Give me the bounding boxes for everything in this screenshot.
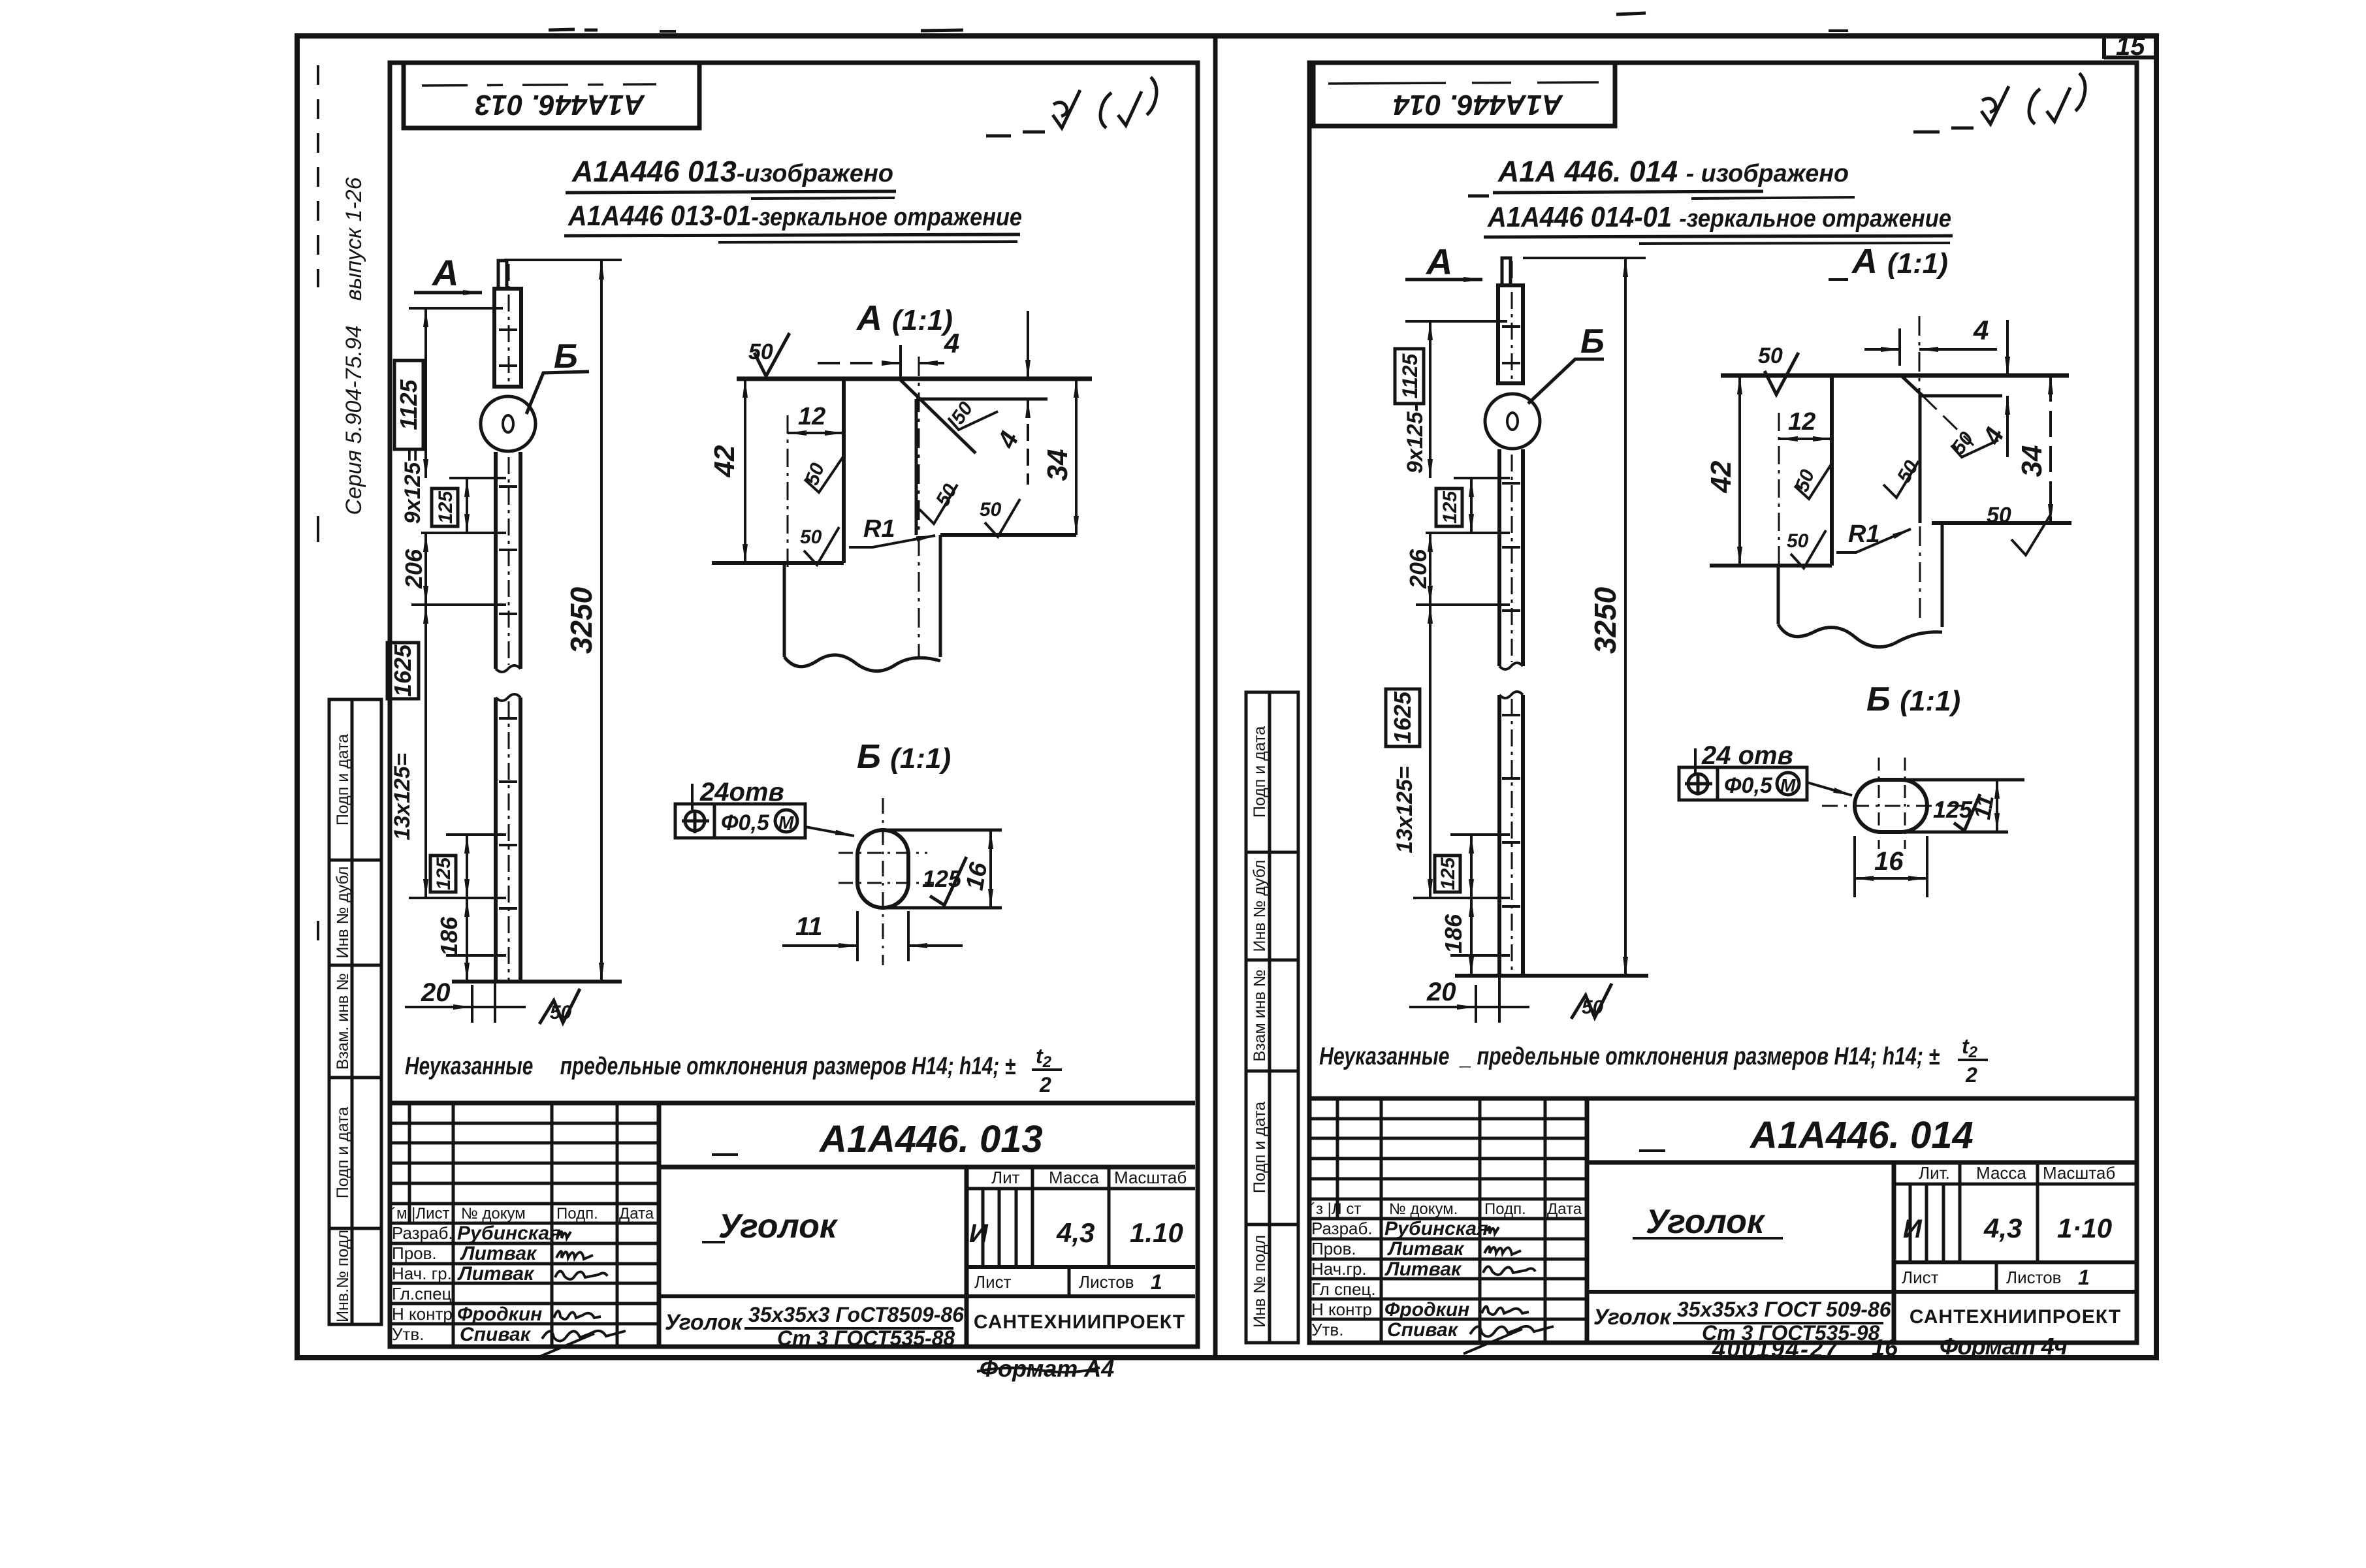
svg-text:Литвак: Литвак: [460, 1243, 537, 1264]
svg-text:20: 20: [1426, 978, 1456, 1006]
left dimension chain: [387, 308, 506, 982]
svg-text:42: 42: [1705, 460, 1737, 493]
title note line 1: [1468, 155, 1855, 199]
svg-text:13х125=: 13х125=: [390, 753, 415, 840]
svg-text:Инв № дубл: Инв № дубл: [1251, 860, 1269, 952]
svg-text:Н контр: Н контр: [1311, 1300, 1372, 1319]
svg-text:Б: Б: [1580, 323, 1605, 360]
dim 125 lower: [1470, 835, 1473, 898]
title note line 2: [1484, 201, 1953, 244]
svg-text:А: А: [1425, 241, 1452, 282]
right part: [659, 1165, 1195, 1170]
svg-text:Утв.: Утв.: [392, 1324, 424, 1344]
svg-text:12: 12: [798, 403, 825, 430]
svg-text:Уголок: Уголок: [1646, 1203, 1766, 1241]
dim 125 upper: [466, 478, 468, 533]
svg-text:Взам. инв №: Взам. инв №: [334, 973, 352, 1070]
svg-text:50: 50: [1758, 344, 1783, 368]
horizontal lines: [390, 1101, 1195, 1106]
svg-text:125: 125: [1933, 796, 1973, 823]
inner frame right sheet: [1309, 63, 2137, 1343]
svg-text:Пров.: Пров.: [392, 1243, 437, 1263]
svg-text:А1А446 013-01-зеркальное отраж: А1А446 013-01-зеркальное отражение: [568, 200, 1022, 232]
margin strip cells: [1246, 692, 1298, 1343]
svg-text:35х35х3 ГоСТ8509-86: 35х35х3 ГоСТ8509-86: [748, 1303, 964, 1326]
dim 206: [1429, 533, 1431, 605]
bottom baseline: [452, 980, 622, 984]
svg-text:Масса: Масса: [1049, 1168, 1099, 1187]
detail A (1:1) right sheet: [1705, 242, 2071, 647]
svg-text:Инв.№ подл: Инв.№ подл: [334, 1230, 352, 1322]
detail A (1:1) left sheet: [709, 298, 1092, 671]
svg-text:1125: 1125: [1398, 353, 1422, 398]
dim 16: [989, 830, 992, 908]
svg-text:Подп и дата: Подп и дата: [334, 1107, 352, 1198]
svg-text:20: 20: [421, 978, 451, 1007]
dim 13x125=1625: [1429, 605, 1431, 898]
baseline bottom right bar: [1455, 974, 1648, 978]
svg-text:А1А446 013-изображено: А1А446 013-изображено: [571, 155, 893, 188]
dim 34: [2049, 376, 2052, 523]
svg-text:Фродкин: Фродкин: [457, 1304, 542, 1325]
dim 186: [1470, 898, 1473, 976]
svg-text:№ докум: № докум: [461, 1205, 526, 1223]
outer border: [297, 36, 2156, 1358]
svg-text:1625: 1625: [389, 644, 416, 697]
svg-text:Неуказанные _ предельные откл: Неуказанные _ предельные отклонения разм…: [1319, 1043, 1940, 1070]
svg-text:Листов: Листов: [2006, 1268, 2061, 1287]
dim 9x125=1125: [424, 308, 427, 478]
dim 20 bottom: [405, 978, 526, 1023]
svg-text:Гл спец.: Гл спец.: [1311, 1279, 1376, 1299]
detail circle Б on bar: [481, 396, 536, 451]
extension lines: [409, 308, 506, 955]
svg-text:50: 50: [550, 1002, 572, 1023]
bottom note right sheet: [1319, 1034, 1988, 1087]
svg-text:1.10: 1.10: [1130, 1217, 1183, 1248]
dim 125 lower: [466, 835, 468, 898]
svg-text:50: 50: [748, 340, 773, 364]
svg-text:Рубинская: Рубинская: [457, 1223, 561, 1244]
dim 4 vertical: [2006, 320, 2009, 376]
svg-text:13х125=: 13х125=: [1392, 766, 1417, 853]
svg-text:А (1:1): А (1:1): [855, 298, 953, 338]
bar lower segment: [494, 697, 498, 982]
svg-text:Литвак: Литвак: [457, 1263, 535, 1285]
title note line 2: [564, 200, 1022, 242]
svg-text:34: 34: [2016, 445, 2048, 477]
detail Б (1:1) right sheet: [1679, 680, 2024, 897]
dim 42: [744, 379, 746, 563]
dim 3250 right: [1523, 258, 1646, 976]
right leg top face: [916, 398, 1047, 401]
svg-text:Уголок: Уголок: [1593, 1305, 1672, 1330]
stamp box (flipped doc number): [404, 63, 699, 128]
vertical centerline of right leg: [918, 357, 920, 658]
svg-text:А1А446 014-01 -зеркальное отра: А1А446 014-01 -зеркальное отражение: [1487, 201, 1951, 233]
roughness 50 right side: [1951, 440, 1998, 457]
roughness 50 at baseline: [539, 989, 580, 1024]
svg-text:206: 206: [400, 549, 427, 589]
svg-text:А1А446. 014: А1А446. 014: [1394, 89, 1563, 121]
svg-text:Ф0,5: Ф0,5: [1724, 773, 1773, 798]
svg-text:Разраб.: Разраб.: [392, 1223, 453, 1243]
svg-text:Фродкин: Фродкин: [1384, 1299, 1469, 1320]
svg-text:Неуказанные предельные отк: Неуказанные предельные отклонения размер…: [405, 1053, 1015, 1080]
dim 42: [1738, 376, 1741, 566]
bar middle segment: [494, 452, 498, 669]
svg-text:2: 2: [1965, 1063, 1977, 1087]
top face line: [1721, 374, 2069, 378]
dim 4 horizontal (top): [818, 362, 901, 364]
svg-text:М: М: [778, 812, 794, 833]
roughness 12,5: [930, 857, 967, 905]
roughness 50 at baseline: [1571, 984, 1612, 1019]
svg-text:Подп и дата: Подп и дата: [1251, 1102, 1269, 1193]
svg-text:1: 1: [1151, 1270, 1162, 1294]
svg-text:206: 206: [1405, 549, 1431, 589]
svg-text:´з |Л ст: ´з |Л ст: [1311, 1200, 1361, 1218]
svg-text:Инв № дубл: Инв № дубл: [334, 867, 352, 959]
svg-text:4,3: 4,3: [1056, 1217, 1095, 1248]
svg-text:3250: 3250: [1588, 586, 1622, 654]
svg-text:А1А446. 013: А1А446. 013: [475, 89, 645, 121]
svg-text:1: 1: [2078, 1266, 2090, 1289]
svg-text:Ф0,5: Ф0,5: [721, 810, 770, 835]
svg-text:Масштаб: Масштаб: [1114, 1168, 1187, 1187]
main bar view: [481, 261, 589, 982]
divider between sheets: [1213, 36, 1218, 1358]
svg-text:Нач. гр.: Нач. гр.: [392, 1264, 452, 1283]
svg-text:Лит: Лит: [991, 1168, 1020, 1187]
inner frame left sheet: [390, 63, 1198, 1347]
left dimension chain right sheet: [1386, 321, 1510, 976]
svg-text:9х125=: 9х125=: [400, 449, 425, 524]
header texts: [391, 1205, 654, 1223]
svg-text:Б (1:1): Б (1:1): [857, 738, 951, 776]
svg-text:2: 2: [1039, 1073, 1051, 1096]
svg-text:t2: t2: [1036, 1044, 1052, 1071]
svg-text:И: И: [1903, 1215, 1923, 1243]
left leg edges: [842, 379, 846, 563]
svg-text:Взам инв №: Взам инв №: [1251, 970, 1269, 1062]
bar upper plate segment: [494, 289, 521, 387]
title block left sheet: [390, 1103, 1195, 1382]
dim 4 horizontal top: [1864, 348, 1900, 351]
svg-text:35х35х3 ГОСТ 509-86: 35х35х3 ГОСТ 509-86: [1677, 1298, 1891, 1321]
svg-text:Уголок: Уголок: [718, 1208, 839, 1245]
svg-text:34: 34: [1042, 449, 1074, 481]
svg-text:А: А: [431, 252, 458, 293]
svg-text:Нач.гр.: Нач.гр.: [1311, 1259, 1367, 1279]
main bar view right: [1485, 258, 1605, 976]
general roughness mark top right: [986, 77, 1157, 136]
dim 13x125=1625: [424, 605, 427, 898]
svg-text:Инв № подл: Инв № подл: [1251, 1235, 1269, 1328]
svg-text:16: 16: [961, 860, 993, 893]
svg-text:Пров.: Пров.: [1311, 1239, 1356, 1258]
lower continuation with break: [1777, 566, 1780, 624]
svg-text:4: 4: [944, 328, 959, 359]
left leg: [1830, 376, 1834, 566]
signatures scribbles: [536, 1232, 626, 1358]
svg-text:125: 125: [1437, 857, 1459, 890]
svg-text:16: 16: [1874, 847, 1904, 876]
svg-text:Разраб.: Разраб.: [1311, 1219, 1373, 1238]
svg-text:125: 125: [1439, 490, 1461, 524]
svg-text:3250: 3250: [564, 586, 598, 654]
dim 206: [424, 533, 427, 605]
svg-text:И: И: [969, 1219, 989, 1248]
fold mark dashes left margin: [317, 65, 319, 287]
svg-text:4,3: 4,3: [1983, 1213, 2022, 1243]
svg-text:t2: t2: [1962, 1034, 1978, 1061]
section A label and arrow: [414, 252, 482, 293]
right leg: [1921, 394, 2002, 398]
svg-text:50: 50: [1947, 428, 1977, 458]
svg-text:Спивак: Спивак: [460, 1324, 532, 1345]
svg-text:42: 42: [709, 445, 741, 477]
svg-text:15: 15: [2116, 32, 2145, 61]
margin strip cells: [329, 699, 381, 1324]
chamfer line: [901, 380, 976, 453]
lower continuation with break: [783, 563, 786, 657]
svg-text:Рубинская: Рубинская: [1384, 1218, 1488, 1240]
svg-text:Н контр: Н контр: [392, 1304, 453, 1324]
svg-text:Лист: Лист: [1902, 1268, 1939, 1287]
svg-text:САНТЕХНИИПРОЕКТ: САНТЕХНИИПРОЕКТ: [974, 1311, 1185, 1333]
svg-text:А1А446. 014: А1А446. 014: [1749, 1114, 1974, 1157]
bar top stub: [498, 261, 507, 289]
svg-text:Лит.: Лит.: [1919, 1163, 1950, 1183]
svg-text:Ст 3 ГОСТ535-88: Ст 3 ГОСТ535-88: [777, 1326, 955, 1350]
detail Б (1:1) left sheet: [675, 738, 1002, 965]
chamfer: [1901, 376, 1923, 396]
general roughness mark top right: [1913, 73, 2085, 132]
svg-text:186: 186: [436, 916, 462, 956]
svg-text:12: 12: [1788, 408, 1815, 436]
svg-text:50: 50: [980, 499, 1002, 520]
top face line: [737, 377, 1092, 381]
dim 20 bottom right: [1409, 976, 1529, 1023]
bottom note left sheet: [405, 1044, 1062, 1096]
dim 186: [466, 898, 468, 982]
svg-text:50: 50: [800, 526, 822, 548]
dim 12: [1779, 438, 1832, 440]
svg-text:А1А446. 013: А1А446. 013: [818, 1118, 1043, 1160]
svg-text:Подп.: Подп.: [1484, 1200, 1526, 1218]
svg-text:1625: 1625: [1389, 691, 1416, 744]
title block right sheet: [1309, 1098, 2137, 1362]
svg-text:125: 125: [922, 865, 962, 892]
svg-text:50: 50: [1787, 530, 1809, 552]
slot hole oval horizontal: [1855, 780, 1927, 832]
svg-text:Серия 5.904-75.94 выпуск 1-: Серия 5.904-75.94 выпуск 1-26: [342, 177, 366, 515]
svg-text:9х125-: 9х125-: [1403, 404, 1428, 473]
lit/mass/scale: [991, 1168, 1187, 1187]
top/bottom reference lines: [883, 829, 1002, 832]
svg-text:Листов: Листов: [1079, 1272, 1134, 1292]
svg-text:24отв: 24отв: [699, 778, 784, 807]
svg-text:Формат 4ч: Формат 4ч: [1940, 1333, 2068, 1360]
svg-text:Подп.: Подп.: [556, 1205, 598, 1223]
section A label and arrow: [1405, 241, 1482, 282]
svg-text:4: 4: [1973, 315, 1989, 345]
svg-text:№ докум.: № докум.: [1389, 1200, 1458, 1218]
svg-text:Литвак: Литвак: [1387, 1238, 1465, 1260]
centerlines: [882, 798, 884, 965]
dim 3250: [504, 260, 622, 982]
svg-text:Б (1:1): Б (1:1): [1866, 680, 1960, 718]
svg-text:Лист: Лист: [974, 1272, 1012, 1292]
stamp box (flipped doc number): [1313, 63, 1615, 126]
svg-text:4: 4: [992, 427, 1025, 453]
dim 9x125=1125: [1429, 321, 1431, 478]
dim 4 vertical (right): [1027, 311, 1029, 379]
dim 12: [788, 432, 844, 434]
svg-text:125: 125: [435, 490, 456, 524]
svg-text:А (1:1): А (1:1): [1851, 242, 1948, 281]
svg-text:4: 4: [1977, 423, 2010, 449]
dim 125 upper: [1470, 478, 1473, 533]
svg-text:Подп и дата: Подп и дата: [1251, 726, 1269, 818]
svg-text:50: 50: [1582, 997, 1604, 1018]
svg-text:24 отв: 24 отв: [1701, 741, 1793, 770]
dim 16 bottom: [1853, 836, 1856, 897]
centerlines: [1822, 805, 1966, 807]
svg-text:Б: Б: [554, 338, 578, 376]
bar centerline dash-dot: [508, 264, 510, 382]
svg-text:125: 125: [433, 857, 455, 890]
svg-text:САНТЕХНИИПРОЕКТ: САНТЕХНИИПРОЕКТ: [1910, 1306, 2121, 1328]
svg-text:М: М: [1780, 775, 1796, 795]
dim 11 vertical right: [1996, 780, 1998, 832]
svg-text:Гл.спец.: Гл.спец.: [392, 1284, 456, 1304]
tolerance frame: [675, 804, 805, 838]
hole tick marks on bar: [499, 330, 517, 908]
svg-text:Масштаб: Масштаб: [2043, 1163, 2115, 1183]
slot hole oval: [857, 830, 908, 908]
svg-text:Утв.: Утв.: [1311, 1320, 1343, 1339]
svg-text:Масса: Масса: [1976, 1163, 2026, 1183]
svg-text:16: 16: [1872, 1334, 1898, 1361]
svg-text:Дата: Дата: [619, 1205, 654, 1223]
dim 34: [1075, 379, 1078, 535]
svg-text:1·10: 1·10: [2057, 1213, 2112, 1243]
title note line 1: [566, 155, 896, 199]
svg-text:R1: R1: [863, 515, 895, 543]
svg-text:Спивак: Спивак: [1387, 1319, 1459, 1341]
registration dashes above top border: [549, 29, 575, 30]
dim 11: [856, 911, 859, 961]
roughness 50 top-left: [754, 333, 790, 376]
svg-text:400194-27: 400194-27: [1712, 1336, 1839, 1362]
svg-text:Уголок: Уголок: [665, 1310, 743, 1335]
vertical lines signature table: [408, 1103, 411, 1223]
svg-text:186: 186: [1440, 914, 1467, 953]
svg-text:Дата: Дата: [1547, 1200, 1582, 1218]
roughness 50 marks right side: [948, 411, 998, 430]
svg-text:11: 11: [795, 912, 823, 941]
svg-text:А1А 446. 014 - изображено: А1А 446. 014 - изображено: [1497, 155, 1849, 188]
roughness 50 marks inside left leg: [805, 456, 844, 492]
page number 15 cell: [2104, 32, 2156, 61]
svg-text:1125: 1125: [395, 379, 422, 430]
svg-text:´м.|Лист: ´м.|Лист: [391, 1205, 450, 1223]
svg-text:Подп и дата: Подп и дата: [334, 734, 352, 825]
svg-text:Литвак: Литвак: [1384, 1258, 1462, 1280]
svg-text:50: 50: [1987, 503, 2011, 528]
